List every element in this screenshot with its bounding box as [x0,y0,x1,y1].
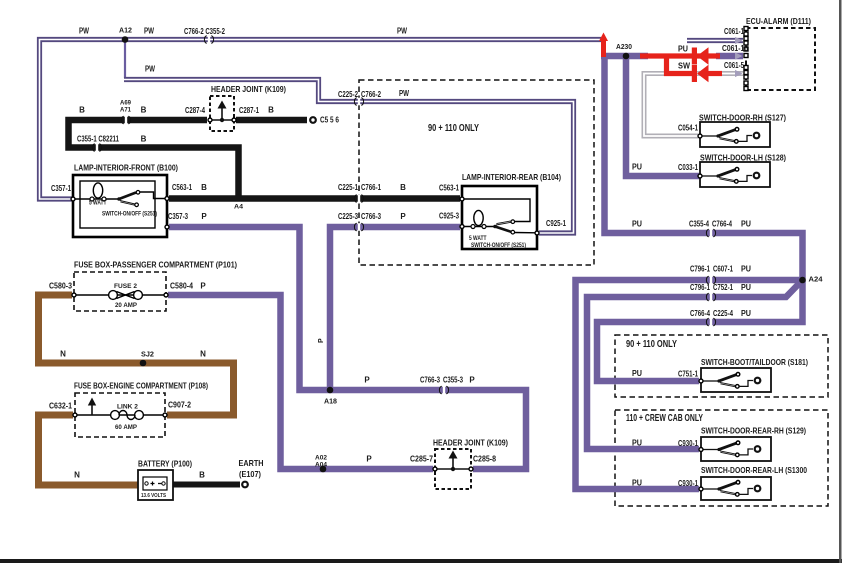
pin C285-8 [469,467,473,471]
svg-text:PU: PU [678,45,688,54]
svg-text:SWITCH-BOOT/TAILDOOR (S181): SWITCH-BOOT/TAILDOOR (S181) [701,357,808,367]
svg-text:C580-3: C580-3 [49,282,72,291]
svg-text:SW: SW [678,62,690,71]
red highlight cap on PW line end [599,33,608,58]
svg-text:C632-1: C632-1 [49,402,72,411]
svg-text:N: N [200,350,206,359]
red arrow into C061-16 [692,47,709,65]
pin C925-3 [460,225,464,229]
label C225-1 C766-1 B [338,183,406,192]
wire B row1: left corner down to row2 and across to A4 drop [69,120,239,198]
label N SJ2 N [60,350,206,359]
svg-text:PW: PW [79,27,89,36]
dashed region box 90 + 110 ONLY (upper, around rear lamp) [359,80,594,265]
svg-text:LINK 2: LINK 2 [117,404,138,411]
header joint K109 bottom: internal bus and arrow [435,451,471,472]
label 5 WATT (rear) [469,236,487,242]
inline connector C225-1/C766-1 on B row3 [354,195,363,203]
svg-text:C796-1: C796-1 [690,265,710,274]
header joint K109 top: internal bus and arrow [210,101,234,123]
battery P100 box [138,470,173,500]
arrow symbol in P108 [88,398,96,416]
label A24 [809,277,823,284]
label C061-1 [724,27,744,36]
gray arrowhead into C061-16 [735,52,743,59]
svg-text:SWITCH-DOOR-REAR-LH (S1300: SWITCH-DOOR-REAR-LH (S1300 [701,465,807,475]
svg-text:N: N [74,471,80,480]
wire PU stub into ECU C061-16 [716,53,743,60]
label LAMP-INTERIOR-REAR (B104) [462,172,561,182]
svg-text:LAMP-INTERIOR-REAR (B104): LAMP-INTERIOR-REAR (B104) [462,172,561,182]
label C225-3 C766-3 P [338,212,406,221]
label PW (top middle) [397,27,407,36]
switch boot/taildoor S181 box [701,368,771,392]
svg-text:C796-1: C796-1 [690,283,710,292]
label SWITCH-BOOT/TAILDOOR (S181) [701,357,808,367]
label C632-1 [49,402,72,411]
wire N brown: C580-3 left, down, SJ2 row, down to C907-2 [39,295,234,415]
fuse box P108 dashed box [75,393,165,437]
label 13.6 VOLTS [141,493,166,499]
dashed region box 90 + 110 ONLY (lower right) [615,335,828,397]
svg-text:SWITCH-ON/OFF (S251): SWITCH-ON/OFF (S251) [102,212,157,218]
svg-text:C766-2: C766-2 [361,90,381,99]
inline connector C796-1/C752-1 [706,293,715,301]
label A12 [119,28,132,35]
lamp interior rear B104 box [462,186,537,249]
svg-text:A69: A69 [120,100,131,107]
wire B row3: lamp front C563-1 to lamp rear C563-1 [169,195,460,202]
svg-text:C061-16: C061-16 [722,44,748,53]
label SWITCH-DOOR-REAR-RH (S129) [701,426,806,436]
switch S129 internals [703,441,761,457]
pin C357-3 [165,225,169,229]
header joint K109 (top) dashed box [210,96,234,131]
wire B row1 right: header joint to ring C5 5 6 [236,117,307,124]
svg-text:C563-1: C563-1 [439,184,459,193]
label 60 AMP [115,424,138,431]
switch door RH S127 box [700,122,770,147]
svg-text:C225-4: C225-4 [713,309,733,318]
svg-text:C225-1: C225-1 [338,183,358,192]
label C563-1 (rear) [439,184,459,193]
svg-text:B: B [141,106,147,115]
node A02 A04 [320,466,327,473]
label HEADER JOINT (K109) top [211,84,286,94]
svg-text:SWITCH-DOOR-RH (S127): SWITCH-DOOR-RH (S127) [699,113,786,123]
label C285-7 [410,455,433,464]
svg-text:5 WATT: 5 WATT [469,236,487,242]
label HEADER JOINT (K109) bottom [433,438,508,448]
label C355-1 C82211 [77,135,119,144]
label 90 + 110 ONLY (lower box) [626,338,677,350]
pin C930-1 (RH) [699,448,703,452]
svg-text:PU: PU [632,479,642,488]
label C563-1 B (front) [172,183,207,192]
pin C751-1 [699,379,703,383]
pin C285-7 [433,467,437,471]
pin C357-1 [71,197,75,201]
label A02 A04 [315,455,327,469]
svg-text:PU: PU [632,163,642,172]
lamp interior front B100 box [73,175,167,237]
ring terminal EARTH E107 [241,481,249,489]
lamp B100 bulb 5 WATT [90,183,106,201]
pin C054-1 [698,134,702,138]
label 90 + 110 ONLY (upper box) [428,122,479,134]
label PU C930-1 (LH) [632,479,698,489]
label PU C355-4 C766-4 PU [632,220,751,229]
svg-text:ECU-ALARM (D111): ECU-ALARM (D111) [746,16,811,26]
label SWITCH-DOOR-LH (S128) [700,153,786,163]
label C580-3 [49,282,72,291]
label B (row1 a) [79,106,85,115]
label B (battery row) [199,471,205,480]
svg-text:C287-4: C287-4 [185,106,205,115]
label A18 [324,399,337,406]
svg-text:PU: PU [741,309,751,318]
header joint K109 (bottom) dashed box [435,449,471,489]
wire B battery to earth ring [166,482,240,488]
svg-text:C054-1: C054-1 [678,124,698,133]
label P C766-3 C355-3 P (A18 row) [364,376,475,385]
wire P row4: front lamp C357-3 right, down at x300 to A18 row, loop to C285-8 [169,227,526,469]
wire PW second run: A12 to C225-2 into 90+110 box, loop to C925-1 [124,80,574,234]
pin C930-1 (LH) [699,487,703,491]
pin C580-4 [164,293,168,297]
svg-text:HEADER JOINT (K109): HEADER JOINT (K109) [433,438,508,448]
svg-text:90 + 110 ONLY: 90 + 110 ONLY [428,122,479,134]
svg-text:C033-1: C033-1 [678,163,698,172]
svg-text:C285-8: C285-8 [473,455,496,464]
inline connector C766-2/C355-2 on top PW [204,36,213,44]
node A12 [122,36,129,43]
fuse box P101 dashed box [74,272,166,311]
wire PU from A230 down to door switch LH C033-1 [626,53,699,176]
inline connector C355-1/C82211 on B row2 [92,144,101,152]
label FUSE 2 [114,283,137,290]
label 20 AMP [115,302,138,309]
svg-text:C766-1: C766-1 [361,183,381,192]
svg-text:PW: PW [144,27,154,36]
fuse FUSE 2 20 AMP internals [74,291,166,300]
svg-text:B: B [268,106,274,115]
node A230 [623,53,630,60]
label LINK 2 [117,404,138,411]
svg-text:HEADER JOINT (K109): HEADER JOINT (K109) [211,84,286,94]
switch door rear RH S129 box [701,437,771,461]
svg-text:SJ2: SJ2 [141,352,154,359]
svg-text:C355-4: C355-4 [689,220,709,229]
dashed region box 110 + CREW CAB ONLY [615,410,828,506]
wire PU main drop: PU row down, right at C355-4 row, down via A24, left at C225-4 row, down to boot switch C751-1 [597,53,803,381]
label B (row1 c) [268,106,274,115]
label PU (red row) [678,45,688,54]
battery terminals [145,482,165,486]
lamp B100 switch S251 [117,191,165,207]
svg-text:C061-5: C061-5 [724,61,744,70]
label SW [678,62,690,71]
svg-text:A71: A71 [120,107,131,114]
label ECU-ALARM (D111) [746,16,811,26]
svg-text:PW: PW [399,89,409,98]
inline connector C225-3/C766-3 on P row4 [354,223,363,231]
label C580-4 P [170,282,206,291]
svg-text:C357-3: C357-3 [168,212,188,221]
pin C287-1 [232,118,236,122]
label C357-1 [51,184,71,193]
wire PU row at A230 level (under red overlay) [601,53,648,60]
svg-text:FUSE 2: FUSE 2 [114,283,137,290]
label C287-4 [185,106,205,115]
label B (row1 b) [141,106,147,115]
lamp B104 bulb 5 WATT [471,210,486,228]
switch S181 internals [703,373,761,389]
svg-text:90 + 110 ONLY: 90 + 110 ONLY [626,338,677,350]
label SWITCH-DOOR-REAR-LH (S1300 [701,465,807,475]
label A230 [616,44,632,51]
label C796-1 C607-1 PU [690,265,751,274]
switch S127 internals [702,128,760,144]
svg-text:PU: PU [741,220,751,229]
svg-text:A24: A24 [809,277,823,284]
svg-text:SWITCH-DOOR-LH (S128): SWITCH-DOOR-LH (S128) [700,153,786,163]
svg-text:B: B [199,471,205,480]
label C796-1 C752-1 PU [690,283,751,292]
ring terminal C5 5 6 [309,116,317,124]
svg-text:PU: PU [632,220,642,229]
svg-text:C766-3: C766-3 [361,212,381,221]
label C054-1 [678,124,698,133]
svg-text:C751-1: C751-1 [678,370,698,379]
svg-text:C607-1: C607-1 [713,265,733,274]
red highlight along PU row [640,53,720,58]
label SWITCH-ON/OFF (S251) front [102,212,157,218]
switch door rear LH S1300 box [701,477,771,500]
switch S1300 internals [703,481,761,497]
svg-text:PW: PW [145,65,155,74]
pin C925-1 [535,231,539,235]
wire PW drop at node A12 [124,41,126,78]
label PW (at C225-2 row) [399,89,409,98]
svg-text:PW: PW [397,27,407,36]
svg-text:110 + CREW CAB ONLY: 110 + CREW CAB ONLY [626,412,703,424]
label C225-2 C766-2 [338,90,381,99]
svg-text:A230: A230 [616,44,632,51]
inline connector C766-3/C355-3 on A18 row [439,386,448,394]
wire PW main: left loop from C357-1 up, across top to red cap [40,40,602,200]
svg-text:FUSE BOX-PASSENGER COMPARTMENT: FUSE BOX-PASSENGER COMPARTMENT (P101) [74,260,237,270]
svg-text:A02: A02 [315,455,327,462]
ECU-ALARM D111 dashed box [746,28,815,90]
svg-text:C925-3: C925-3 [439,212,459,221]
label PW (second row) [145,65,155,74]
svg-text:20 AMP: 20 AMP [115,302,138,309]
svg-text:C061-1: C061-1 [724,27,744,36]
label EARTH (E107) [239,458,264,479]
label C357-3 P [168,212,207,221]
wire PW stub into ECU C061-1 [687,38,743,43]
label FUSE BOX-ENGINE COMPARTMENT (P108) [74,381,208,391]
svg-text:BATTERY (P100): BATTERY (P100) [138,459,192,469]
label PW (top left) [79,27,89,36]
svg-text:C5 5 6: C5 5 6 [320,116,339,125]
svg-text:PU: PU [632,369,642,378]
switch S128 internals [702,168,760,184]
svg-text:60 AMP: 60 AMP [115,424,138,431]
label SWITCH-ON/OFF (S251) rear [471,243,526,249]
svg-text:C752-1: C752-1 [713,283,733,292]
svg-text:B: B [79,106,85,115]
label PU C930-1 (RH) [632,439,698,449]
label PU C033-1 [632,163,698,173]
inline connector C225-2/C766-2 on PW [354,98,363,106]
label C061-5 [724,61,744,70]
node A18 [327,387,334,394]
switch door LH S128 box [700,162,770,187]
svg-text:LAMP-INTERIOR-FRONT (B100): LAMP-INTERIOR-FRONT (B100) [74,163,178,173]
svg-text:C563-1: C563-1 [172,183,192,192]
pin C580-3 [72,293,76,297]
fusible link LINK 2 60 AMP internals [75,411,165,420]
label BATTERY (P100) [138,459,192,469]
pin C563-1 (front) [165,197,169,201]
label P (bottom row) [366,455,372,464]
svg-text:B: B [141,135,147,144]
label 110 + CREW CAB ONLY [626,412,703,424]
svg-text:EARTH: EARTH [239,458,264,468]
inline connector A69/A71 on B row1 [121,116,130,124]
inline connector C355-4/C766-4 [706,229,715,237]
svg-text:C930-1: C930-1 [678,439,698,448]
svg-text:C925-1: C925-1 [546,219,566,228]
svg-text:P: P [366,455,372,464]
svg-text:B: B [400,183,406,192]
svg-text:A12: A12 [119,28,132,35]
label A69 A71 [120,100,131,114]
label C5 5 6 [320,116,339,125]
label PU C751-1 [632,369,698,379]
label C287-1 [239,106,259,115]
wire N brown: C632-1 left, down, right to battery [39,415,144,485]
svg-text:FUSE BOX-ENGINE COMPARTMENT (P: FUSE BOX-ENGINE COMPARTMENT (P108) [74,381,208,391]
label A4 [234,204,243,211]
svg-text:5 WATT: 5 WATT [89,201,107,207]
node SJ2 [140,360,147,367]
label C766-4 C225-4 PU [690,309,751,318]
svg-text:P: P [201,212,207,221]
pin C033-1 [698,174,702,178]
svg-text:P: P [400,212,406,221]
pin C907-2 [163,413,167,417]
label P (rotated, on vertical wire) [318,338,325,343]
svg-text:C766-4: C766-4 [690,309,710,318]
label C285-8 [473,455,496,464]
red highlight SW branch [667,54,695,74]
label PW (right of A12) [144,27,154,36]
pin C287-4 [208,118,212,122]
pin C632-1 [73,413,77,417]
lamp B104 internals: feed wires [462,199,530,227]
label SWITCH-DOOR-RH (S127) [699,113,786,123]
lamp B104 switch S251 [493,220,536,234]
svg-text:C225-3: C225-3 [338,212,358,221]
label C061-16 [722,44,748,53]
wire PU row C796-1 C752-1 with diagonal into A24, down to door-rear-RH C930-1 [587,279,804,449]
gray arrowhead into C061-1 [735,37,743,44]
svg-text:A18: A18 [324,399,337,406]
gray arrowhead into C061-5 [735,70,743,77]
svg-text:PU: PU [741,265,751,274]
svg-text:N: N [60,350,66,359]
svg-text:P: P [469,376,475,385]
svg-text:C766-4: C766-4 [712,220,732,229]
svg-text:PU: PU [632,439,642,448]
svg-text:C357-1: C357-1 [51,184,71,193]
label C925-1 [546,219,566,228]
svg-text:P: P [318,338,325,343]
wire P from fuse C580-4 right and down to bottom row, to C285-7 [168,295,433,469]
wire PU row C796-1 C607-1 from A24 left then down to door-rear-LH C930-1 [576,280,803,489]
wire S (gray) from SW row down to door switch RH C054-1 [644,74,743,137]
svg-text:B: B [201,183,207,192]
svg-text:C766-3: C766-3 [420,376,440,385]
svg-text:C580-4: C580-4 [170,282,193,291]
svg-text:C355-3: C355-3 [443,376,463,385]
node A24 [799,277,806,284]
ECU-ALARM pin squares [744,27,748,91]
wire P row4 rear: rear lamp C925-3 left then down to A18 [330,227,460,388]
red arrow into C061-5 [692,65,709,83]
svg-text:C355-1 C82211: C355-1 C82211 [77,135,119,144]
pin C563-1 (rear) [460,197,464,201]
inline connector C796-1/C607-1 [706,276,715,284]
label C907-2 [168,401,191,410]
svg-text:C766-2 C355-2: C766-2 C355-2 [184,27,225,36]
svg-text:13.6 VOLTS: 13.6 VOLTS [141,493,166,499]
svg-text:A04: A04 [315,462,327,469]
svg-text:P: P [200,282,206,291]
label LAMP-INTERIOR-FRONT (B100) [74,163,178,173]
svg-text:SWITCH-DOOR-REAR-RH (S129): SWITCH-DOOR-REAR-RH (S129) [701,426,806,436]
svg-text:(E107): (E107) [239,469,261,479]
svg-text:A4: A4 [234,204,243,211]
svg-text:C907-2: C907-2 [168,401,191,410]
label C925-3 [439,212,459,221]
svg-text:P: P [364,376,370,385]
label B (row2) [141,135,147,144]
svg-text:C225-2: C225-2 [338,90,358,99]
red stub after arrow C061-5 [708,71,722,76]
label FUSE BOX-PASSENGER COMPARTMENT (P101) [74,260,237,270]
label 5 WATT (front) [89,201,107,207]
svg-text:SWITCH-ON/OFF (S251): SWITCH-ON/OFF (S251) [471,243,526,249]
lamp B100 internals: feed wire [73,198,119,200]
svg-text:C287-1: C287-1 [239,106,259,115]
svg-text:C285-7: C285-7 [410,455,433,464]
label N (battery row) [74,471,80,480]
svg-text:PU: PU [741,283,751,292]
label C766-2 C355-2 [184,27,225,36]
inline connector C766-4/C225-4 [706,318,715,326]
svg-text:C930-1: C930-1 [678,479,698,488]
